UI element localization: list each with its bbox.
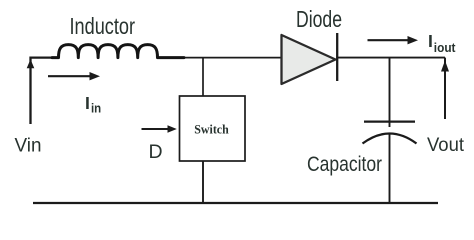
capacitor C1 curved plate — [363, 134, 417, 144]
wire: top rail from cathode to output stub — [337, 57, 445, 59]
svg-text:Vout: Vout — [427, 134, 465, 156]
wire: bottom ground rail — [33, 202, 438, 204]
svg-text:Inductor: Inductor — [70, 13, 136, 39]
node B: output arrowhead on Vout stub — [441, 61, 449, 72]
svg-text:I: I — [85, 93, 90, 113]
wire: I_in arrow — [48, 75, 93, 77]
node A: input current direction arrowhead on Vin stub — [27, 59, 35, 68]
diode D1 cathode bar — [336, 33, 338, 81]
wire: junction drop from top rail to switch — [202, 58, 204, 96]
svg-text:Capacitor: Capacitor — [307, 152, 382, 176]
svg-text:D: D — [149, 141, 163, 163]
diode D1 triangle — [282, 35, 336, 84]
wire: I_iout arrow — [368, 39, 411, 41]
switch U1 (box) — [180, 96, 246, 161]
wire: capacitor bottom lead — [389, 133, 391, 203]
svg-text:Vin: Vin — [15, 135, 42, 157]
svg-text:in: in — [91, 101, 101, 116]
wire: Vin stub and top rail to inductor — [31, 58, 59, 124]
svg-text:Switch: Switch — [194, 122, 229, 137]
svg-text:iout: iout — [434, 40, 456, 55]
wire: top rail from inductor to diode anode — [184, 57, 282, 59]
wire: switch bottom to ground rail — [202, 161, 204, 203]
inductor L1 (label Inductor) — [52, 45, 184, 58]
wire: capacitor top lead — [389, 58, 391, 127]
svg-text:I: I — [428, 31, 433, 51]
svg-text:Diode: Diode — [296, 6, 342, 32]
wire: Vout stub — [444, 58, 446, 119]
capacitor C1 flat plate — [364, 120, 415, 122]
wire: D gate drive arrow into switch — [142, 128, 171, 130]
